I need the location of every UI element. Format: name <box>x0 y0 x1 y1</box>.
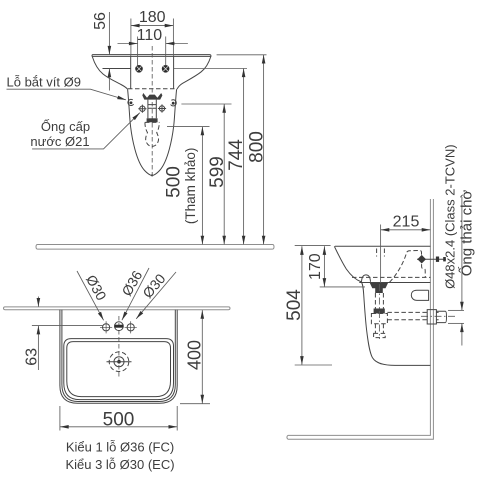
side rim top <box>335 245 431 247</box>
mounting bracket hatched <box>142 93 162 100</box>
dim 110 <box>137 37 139 66</box>
supply hole cross left <box>138 105 146 113</box>
center line front view <box>151 46 153 179</box>
back hidden profile dashed <box>390 250 426 282</box>
pedestal screw hole left <box>130 101 133 104</box>
basin right outer edge <box>177 57 211 90</box>
dim 400 <box>180 403 210 405</box>
ext line 800 <box>217 54 267 56</box>
svg-text:180: 180 <box>139 9 166 26</box>
faucet hole inner <box>114 357 124 367</box>
plan bowl outer <box>64 339 174 400</box>
wall outer line <box>287 199 434 439</box>
hole left O30 <box>100 321 112 333</box>
svg-text:Kiểu 3 lỗ Ø30 (EC): Kiểu 3 lỗ Ø30 (EC) <box>65 457 174 472</box>
dim 504 <box>295 245 331 247</box>
svg-text:Ø48x2.4 (Class 2-TCVN): Ø48x2.4 (Class 2-TCVN) <box>443 144 458 288</box>
bottle trap dashed <box>145 122 159 146</box>
deck underside <box>359 282 430 284</box>
coupling side <box>374 309 385 314</box>
dim 180 <box>130 19 132 55</box>
mounting bolt <box>417 258 446 260</box>
dim O48 <box>448 309 464 311</box>
svg-text:Ống cấp: Ống cấp <box>41 119 90 134</box>
waste center line <box>421 315 456 317</box>
dim line 599 <box>223 104 225 244</box>
svg-text:500: 500 <box>164 166 185 198</box>
plan bowl inner <box>67 342 171 397</box>
coupling nut <box>147 118 158 122</box>
hole middle O36 <box>115 322 124 331</box>
plan rim inner <box>62 310 175 402</box>
svg-text:215: 215 <box>393 214 420 231</box>
supply hole cross right <box>158 104 166 112</box>
trap cap dashed <box>374 333 386 337</box>
rim underside right + 744 extension line <box>174 68 247 70</box>
hole right O30 <box>125 321 137 333</box>
plan center line <box>118 316 120 378</box>
pedestal screw hole right <box>172 102 175 105</box>
svg-text:170: 170 <box>307 253 324 280</box>
faucet crosshair <box>107 361 132 363</box>
basin left outer edge <box>92 57 127 90</box>
screw hole right <box>162 65 170 73</box>
dim line 744 <box>243 68 245 244</box>
waste pipe dashed <box>387 312 438 319</box>
pedestal and bowl outline <box>128 89 177 175</box>
svg-text:56: 56 <box>92 12 109 30</box>
dim 56 <box>108 12 110 55</box>
basin rim top edge <box>92 55 211 57</box>
mounting panel left edge <box>130 55 132 89</box>
screw hole left <box>135 65 143 73</box>
svg-text:500: 500 <box>103 410 135 431</box>
overflow pocket <box>411 290 428 300</box>
ext line 500 <box>167 126 210 128</box>
wall inner line <box>288 199 431 435</box>
svg-text:504: 504 <box>284 289 305 321</box>
drain strainer dome <box>362 275 371 282</box>
svg-text:nước Ø21: nước Ø21 <box>30 134 89 149</box>
svg-text:(Tham khảo): (Tham khảo) <box>183 148 198 225</box>
svg-text:110: 110 <box>137 27 163 44</box>
pedestal top hidden line <box>128 88 177 90</box>
dim 500 plan <box>59 406 61 431</box>
faucet hole outer dashed <box>109 352 129 372</box>
svg-text:800: 800 <box>246 131 267 163</box>
tailpipe dashed <box>375 293 383 309</box>
wall fitting cap <box>436 311 446 322</box>
trap lower pipe dashed <box>375 324 383 334</box>
svg-text:744: 744 <box>226 139 247 171</box>
wall bar plan <box>4 307 231 310</box>
mounting panel right edge <box>173 55 175 89</box>
svg-text:Lỗ bắt vít Ø9: Lỗ bắt vít Ø9 <box>7 75 81 90</box>
supply tailpipe <box>148 100 156 119</box>
hidden ledge dashed <box>352 276 430 278</box>
svg-text:Ống thải chờ: Ống thải chờ <box>458 190 476 277</box>
plan outer outline <box>60 310 177 404</box>
svg-text:Kiểu 1 lỗ Ø36 (FC): Kiểu 1 lỗ Ø36 (FC) <box>66 440 174 455</box>
ext line 599 <box>181 103 231 105</box>
dim line 800 <box>263 55 265 245</box>
svg-text:63: 63 <box>23 348 40 366</box>
trap center line <box>378 284 380 339</box>
tee elbow dashed <box>371 314 387 324</box>
svg-text:400: 400 <box>184 340 204 370</box>
side front silhouette <box>334 246 430 365</box>
svg-text:Ø30: Ø30 <box>83 272 110 303</box>
rim underside left <box>103 68 131 70</box>
drain flange <box>370 283 388 293</box>
wall fitting collar <box>427 310 436 324</box>
dim line 500 <box>201 127 203 245</box>
dim 63 <box>32 325 103 327</box>
dim 215 <box>380 225 382 284</box>
hidden faucet hole side <box>377 249 385 257</box>
dim 170 <box>320 286 365 288</box>
floor slab <box>36 245 274 250</box>
